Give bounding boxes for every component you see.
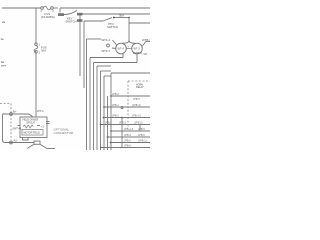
svg-text:JPB-5: JPB-5 (138, 134, 145, 137)
svg-text:+: + (127, 45, 129, 49)
svg-text:JPB-6: JPB-6 (124, 145, 131, 148)
svg-text:(JPB-2): (JPB-2) (134, 122, 143, 125)
svg-text:JPB-1: JPB-1 (105, 122, 112, 125)
svg-text:RELAY: RELAY (136, 86, 144, 89)
svg-text:JPB-1-2: JPB-1-2 (132, 115, 142, 118)
svg-text:A2: A2 (14, 139, 18, 143)
svg-text:JPB-1-3: JPB-1-3 (124, 128, 134, 131)
svg-text:WT-1: WT-1 (37, 109, 44, 113)
svg-text:wire: wire (1, 64, 7, 68)
svg-text:30A: 30A (41, 49, 46, 53)
svg-text:+ 2: + 2 (41, 127, 45, 129)
svg-text:B+: B+ (13, 110, 17, 114)
svg-text:(JPB-3): (JPB-3) (132, 104, 141, 107)
svg-text:WT-4: WT-4 (118, 47, 125, 51)
svg-text:(WT-4): (WT-4) (13, 127, 22, 131)
svg-text:JPB-3: JPB-3 (124, 134, 131, 137)
svg-text:JPB-3: JPB-3 (119, 122, 126, 125)
svg-text:MOTOR FIELD: MOTOR FIELD (24, 132, 41, 135)
svg-text:JPB-5: JPB-5 (138, 128, 145, 131)
svg-text:CONNECTOR: CONNECTOR (54, 131, 75, 135)
svg-text:JPB-5: JPB-5 (133, 98, 140, 101)
svg-text:3a: 3a (1, 37, 5, 41)
svg-text:(JPB-1): (JPB-1) (138, 140, 147, 143)
svg-text:WTF-4: WTF-4 (102, 38, 111, 42)
svg-text:JPB-3: JPB-3 (112, 115, 119, 118)
svg-text:CIRCUIT: CIRCUIT (26, 122, 36, 124)
svg-text:WTB-3: WTB-3 (133, 51, 142, 55)
svg-text:FIELD DRIVER: FIELD DRIVER (23, 120, 39, 122)
svg-text:JPB-4: JPB-4 (112, 104, 119, 107)
svg-text:SWITCH: SWITCH (107, 25, 118, 29)
svg-text:2a: 2a (2, 20, 6, 24)
svg-text:WTF-7: WTF-7 (102, 49, 111, 53)
svg-text:WTB-4: WTB-4 (142, 38, 150, 42)
svg-text:2: 2 (52, 9, 54, 13)
svg-text:SWITCH: SWITCH (66, 20, 77, 24)
svg-text:JPB-2: JPB-2 (124, 140, 131, 143)
svg-text:1: 1 (40, 9, 42, 13)
svg-text:JPB-2: JPB-2 (112, 93, 119, 96)
svg-text:30A: 30A (119, 14, 124, 18)
svg-text:WT-3: WT-3 (134, 47, 141, 51)
svg-text:(15 AMPS): (15 AMPS) (41, 15, 55, 19)
